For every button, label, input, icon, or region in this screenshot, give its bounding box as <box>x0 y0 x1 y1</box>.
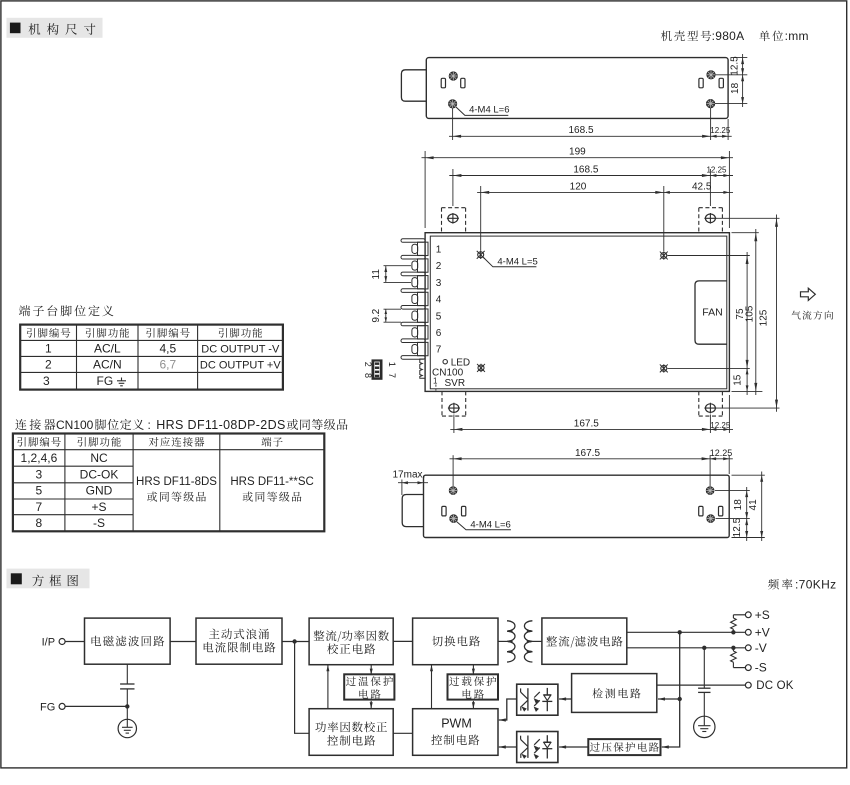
svg-text:8: 8 <box>363 373 373 378</box>
wire transformer to rectifier/filter <box>533 640 542 642</box>
svg-text:+S: +S <box>91 500 106 514</box>
svg-text:1,2,4,6: 1,2,4,6 <box>21 451 58 465</box>
svg-text:DC OUTPUT +V: DC OUTPUT +V <box>200 360 281 372</box>
plan view: bracket screw BL <box>448 403 460 414</box>
svg-text:9.2: 9.2 <box>371 308 382 322</box>
bottom view: screw BL <box>450 515 458 523</box>
top view: case body outline <box>426 58 728 119</box>
plan view: dim 105 right <box>732 229 763 395</box>
bottom view: case body outline <box>424 475 730 537</box>
optocoupler U2 <box>517 732 558 763</box>
terminal pin numbers 1-7 <box>436 244 442 355</box>
bottom view: left tab <box>402 495 423 527</box>
svg-text:CN100: CN100 <box>56 418 94 432</box>
svg-text:18: 18 <box>730 82 741 94</box>
svg-text:12.5: 12.5 <box>732 517 743 537</box>
svg-text:GND: GND <box>86 484 113 498</box>
box: over-load protection 过载保护电路 <box>448 674 499 699</box>
plan view: inner screw TR <box>660 251 668 259</box>
CN100 connector symbol 8-pin <box>372 359 383 379</box>
svg-text:2: 2 <box>45 358 52 372</box>
table1 row3: 3 FG earth <box>43 374 126 388</box>
svg-text:HRS DF11-8DS: HRS DF11-8DS <box>136 476 217 488</box>
terminal -V <box>745 641 766 655</box>
arrow PWM up to switching <box>430 665 433 709</box>
top view: screw TL <box>449 72 457 80</box>
CN100 pin labels 1 7 / 2 8 <box>363 362 397 378</box>
node: -V junction at resistor <box>731 646 735 650</box>
wire junction down to PFC control <box>295 642 310 734</box>
plan view: label 4-M4 L=5 with leader <box>484 257 538 268</box>
plan view: case inner lid line <box>430 236 727 389</box>
svg-text:15: 15 <box>732 374 743 386</box>
plan view: dim 167.5 bottom <box>450 395 733 433</box>
plan view: mounting bracket TL (dashed) <box>442 208 466 233</box>
air flow direction arrow <box>801 288 816 300</box>
wire PFC to switching <box>393 640 412 642</box>
wire switching to transformer <box>498 640 508 642</box>
box: detector 检测电路 <box>572 674 657 713</box>
terminal I/P <box>42 636 66 648</box>
arrow switching down to over-load <box>472 665 475 675</box>
svg-text:3: 3 <box>36 467 43 481</box>
earth ground symbol left <box>118 719 136 737</box>
svg-text:I/P: I/P <box>42 636 55 648</box>
plan view: inner screw BR <box>660 364 668 372</box>
svg-text:125: 125 <box>759 309 770 326</box>
svg-text::70KHz: :70KHz <box>795 578 836 592</box>
svg-text:5: 5 <box>436 311 442 322</box>
box: rectifier/filter 整流/滤波电路 <box>542 618 627 664</box>
svg-text:18: 18 <box>733 499 744 511</box>
svg-text:42.5: 42.5 <box>692 181 712 192</box>
plan view: FAN cutout <box>695 281 727 344</box>
svg-text:+V: +V <box>755 625 770 639</box>
svg-text:4,5: 4,5 <box>159 342 176 356</box>
arrow over-load down to PWM <box>472 701 475 709</box>
plan view: inner screw BL <box>477 364 485 372</box>
svg-text:6: 6 <box>436 328 442 339</box>
svg-text:-V: -V <box>755 641 767 655</box>
svg-text::mm: :mm <box>785 29 809 43</box>
wire inrush to PFC with junction <box>282 641 309 643</box>
svg-text:4-M4 L=5: 4-M4 L=5 <box>497 257 537 268</box>
dim 11 terminal pitch <box>371 266 411 283</box>
svg-text:3: 3 <box>43 374 50 388</box>
resistor +S sense <box>731 615 737 633</box>
svg-text:1: 1 <box>387 362 397 367</box>
svg-text:199: 199 <box>569 147 586 158</box>
svg-text:4-M4 L=6: 4-M4 L=6 <box>470 519 510 530</box>
bottom view: dim 12.5 right <box>732 517 748 537</box>
top view: dim 168.5 bottom <box>449 108 732 140</box>
table1 row1: 1 AC/L 4,5 DC OUTPUT -V <box>45 342 280 356</box>
section title: mechanical dimensions <box>7 18 103 38</box>
svg-text:5: 5 <box>36 484 43 498</box>
svg-text:168.5: 168.5 <box>573 164 598 175</box>
svg-text:1: 1 <box>433 377 438 386</box>
svg-text:3: 3 <box>436 278 442 289</box>
top view: left mounting tab <box>401 70 426 101</box>
wire +S <box>733 614 745 616</box>
CN100 text label <box>432 367 464 378</box>
bottom view: dim 167.5 top <box>450 448 733 486</box>
table2 rows pin numbers and functions <box>21 451 119 530</box>
wire -S <box>733 667 745 669</box>
svg-text:DC OUTPUT -V: DC OUTPUT -V <box>201 344 280 356</box>
bottom view: screw TR <box>706 487 714 495</box>
svg-text::980A: :980A <box>712 29 745 43</box>
wire opto U2 to PWM <box>499 745 517 748</box>
arrow PFC control up to PFC <box>326 665 329 709</box>
plan view: mounting bracket BR (dashed) <box>699 391 723 416</box>
box: switching circuit 切换电路 <box>413 618 498 665</box>
svg-text:17max.: 17max. <box>393 469 426 480</box>
bottom view: dim 41 right <box>732 472 765 542</box>
bottom view: dim 12.25 top right <box>710 448 733 474</box>
node: +V junction to detector <box>678 630 682 634</box>
box: PWM control PWM控制电路 <box>413 709 498 756</box>
svg-text:AC/L: AC/L <box>94 342 121 356</box>
table1 header row <box>27 328 262 338</box>
box: rectifier/PFC 整流/功率因数校正电路 <box>309 618 393 665</box>
plan view: bracket screw TL <box>447 213 459 224</box>
svg-text:11: 11 <box>371 269 382 280</box>
transformer T1 <box>507 621 532 662</box>
bottom view: dim 18 right <box>715 487 750 541</box>
table1 grid <box>20 325 283 390</box>
plan view: dim 125 right <box>716 215 780 412</box>
bottom view: label 17max with dim <box>393 469 429 495</box>
SVR text label <box>445 378 466 389</box>
svg-text:7: 7 <box>36 500 43 514</box>
resistor -S sense <box>731 648 737 668</box>
case left-edge spring clip <box>420 359 425 378</box>
wire PFC control to PWM control <box>393 732 412 734</box>
plan view: dim 75 right <box>668 252 750 372</box>
table2 merged cell: HRS DF11-8DS <box>136 476 217 502</box>
svg-text::: : <box>148 418 151 432</box>
top view: screw slots <box>441 78 723 88</box>
svg-text:1: 1 <box>45 342 52 356</box>
plan view: mounting bracket BL (dashed) <box>442 391 466 416</box>
LED indicator <box>443 357 470 368</box>
section title: block diagram <box>7 569 90 589</box>
plan view: bracket screw BR <box>704 403 716 414</box>
plan view: dim 168.5 top <box>449 164 733 206</box>
top view: screw BR <box>706 99 714 107</box>
svg-text:NC: NC <box>90 451 108 465</box>
wire detector to opto U1 <box>559 697 572 700</box>
svg-text:1: 1 <box>436 244 442 255</box>
plan view: dim 199 top <box>422 147 734 228</box>
wire cap to earth <box>126 689 128 719</box>
svg-text:7: 7 <box>436 345 442 356</box>
svg-text:12.5: 12.5 <box>730 56 741 76</box>
wire EMI to inrush limiter <box>170 641 196 643</box>
box: PFC control 功率因数校正控制电路 <box>309 709 393 756</box>
terminal +S <box>745 608 769 622</box>
svg-text:DC-OK: DC-OK <box>80 467 119 481</box>
plan view: dim 120 top <box>477 181 733 251</box>
terminal +V <box>745 625 769 639</box>
note: frequency 70KHz <box>768 578 836 592</box>
top view: screw TR <box>707 71 715 79</box>
top view: screw BL <box>448 100 456 108</box>
svg-text:167.5: 167.5 <box>574 418 599 429</box>
plan view: dim 12.25 bottom right <box>710 421 731 431</box>
wire OVP to opto U2 <box>559 745 588 748</box>
terminal -S <box>745 661 766 675</box>
svg-text:6,7: 6,7 <box>159 358 176 372</box>
header note: case model and unit <box>661 29 809 43</box>
plan view: dim 42.5 top right <box>664 181 730 194</box>
capacitor output to earth <box>698 648 710 716</box>
wire -V rail <box>627 647 746 649</box>
table2 header row <box>17 437 282 447</box>
node: FG junction <box>125 704 129 708</box>
svg-text:120: 120 <box>570 181 587 192</box>
top view: dim 12.25 bottom right <box>710 119 731 140</box>
svg-text:PWM: PWM <box>441 717 472 731</box>
dim 9.2 terminal slot <box>371 308 401 322</box>
svg-text:2: 2 <box>363 362 373 367</box>
svg-text:SVR: SVR <box>445 378 466 389</box>
bottom view: screw TL <box>449 487 457 495</box>
svg-text:HRS DF11-08DP-2DS: HRS DF11-08DP-2DS <box>156 418 285 432</box>
wire +V rail <box>627 631 746 633</box>
top view: dim 12.5 right <box>715 54 747 107</box>
plan view: dim 12.25 top right <box>706 165 729 177</box>
table2 grid <box>13 434 324 532</box>
box: inrush current limiter 主动式浪涌电流限制电路 <box>196 618 282 664</box>
air flow direction text <box>792 311 833 320</box>
terminal FG <box>40 701 65 713</box>
plan view: bracket screw TR <box>704 213 716 224</box>
svg-text:AC/N: AC/N <box>93 358 122 372</box>
box: EMI filter 电磁滤波回路 <box>85 618 171 664</box>
node: +V junction at resistor <box>731 630 735 634</box>
svg-text:7: 7 <box>387 373 397 378</box>
box: over-temp protection 过温保护电路 <box>344 674 394 699</box>
svg-text:FAN: FAN <box>702 307 722 319</box>
svg-text:12.25: 12.25 <box>710 126 731 135</box>
table2 title: CN100 connector pin definition <box>15 418 347 432</box>
table2 merged cell: HRS DF11-**SC <box>230 476 314 502</box>
svg-text:+S: +S <box>755 608 770 622</box>
svg-text:HRS DF11-**SC: HRS DF11-**SC <box>230 476 314 488</box>
table1 title: terminal block pin definition <box>19 305 114 316</box>
svg-text:2: 2 <box>436 261 442 272</box>
svg-text:167.5: 167.5 <box>575 448 600 459</box>
top view: label 4-M4 L=6 with leader <box>456 104 510 115</box>
svg-text:4-M4 L=6: 4-M4 L=6 <box>469 104 509 115</box>
plan view: inner screw TL <box>477 251 485 259</box>
svg-text:12.25: 12.25 <box>706 165 727 174</box>
svg-text:-S: -S <box>93 516 105 530</box>
svg-text:41: 41 <box>748 499 759 511</box>
wire EMI filter down to Y-cap <box>126 664 128 684</box>
svg-text:12.25: 12.25 <box>710 448 733 458</box>
svg-text:FG: FG <box>40 701 55 713</box>
earth ground symbol right <box>694 716 715 737</box>
bottom view: screw BR <box>707 515 715 523</box>
bottom view: label 4-M4 L=6 with leader <box>457 519 511 530</box>
plan view: mounting bracket TR (dashed) <box>699 208 723 233</box>
terminal block terminals 1-7 <box>412 242 428 356</box>
optocoupler U1 <box>517 684 558 715</box>
arrow PFC down to over-temp <box>370 665 373 675</box>
wire opto U1 to PWM <box>499 699 517 722</box>
wire detector rail down to OVP <box>662 632 680 748</box>
wire junction into detector with arrow <box>658 697 680 700</box>
top view: dim 18 right <box>730 75 744 104</box>
box: over-voltage protection 过压保护电路 <box>588 739 660 755</box>
wire DC OK <box>657 684 746 686</box>
plan view: case outer outline <box>425 233 729 392</box>
svg-text:4: 4 <box>436 295 442 306</box>
arrow over-temp down to PFC control <box>370 701 373 709</box>
svg-text:105: 105 <box>744 305 755 322</box>
node: junction detector input <box>678 697 682 701</box>
svg-text:FG: FG <box>97 374 114 388</box>
bottom view: screw slots <box>442 506 723 516</box>
node: junction after inrush limiter <box>292 639 296 643</box>
plan view: dim 15 right <box>732 368 748 395</box>
CN100 pin1 tick <box>433 377 438 391</box>
terminal block comb fins <box>401 239 425 360</box>
svg-text:8: 8 <box>36 516 43 530</box>
svg-text:12.25: 12.25 <box>710 421 731 430</box>
wire FG to ground node <box>65 705 127 707</box>
svg-text:168.5: 168.5 <box>568 125 593 136</box>
table1 row2: 2 AC/N 6,7 DC OUTPUT +V <box>45 358 281 372</box>
svg-text:DC OK: DC OK <box>756 680 794 692</box>
svg-text:-S: -S <box>755 661 767 675</box>
wire I/P to EMI filter <box>65 641 84 643</box>
node: -V junction at capacitor <box>702 646 706 650</box>
terminal DC OK <box>745 680 793 692</box>
capacitor Y-cap <box>120 684 134 689</box>
